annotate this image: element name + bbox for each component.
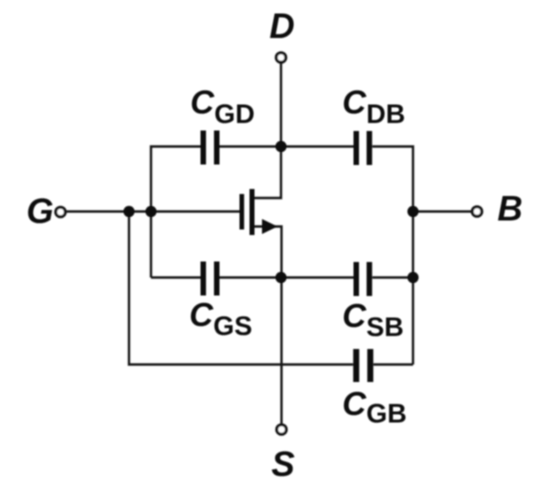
wire bottom row left segment xyxy=(151,276,201,278)
wire bottom row right segment xyxy=(372,276,413,278)
svg-text:DB: DB xyxy=(366,99,405,129)
terminal D circle xyxy=(276,53,286,63)
svg-text:C: C xyxy=(189,296,214,333)
capacitor C_SB xyxy=(354,262,373,296)
wire source terminal vertical xyxy=(280,278,282,425)
node source junction xyxy=(275,272,286,283)
transistor M1 (NMOS) xyxy=(240,189,278,235)
svg-text:C: C xyxy=(190,84,215,121)
node bulk junction xyxy=(407,206,418,217)
svg-text:S: S xyxy=(271,445,294,484)
capacitor C_DB xyxy=(354,131,373,165)
wire bottom row middle segment xyxy=(220,276,354,278)
capacitor C_GS xyxy=(201,262,220,296)
wire top row right segment xyxy=(372,147,413,365)
svg-text:C: C xyxy=(342,385,367,422)
svg-text:G: G xyxy=(26,192,53,231)
node gate junction 1 xyxy=(123,206,134,217)
capacitor C_GD xyxy=(201,131,220,165)
node drain junction xyxy=(275,141,286,152)
wire drain terminal vertical xyxy=(280,64,282,147)
wire gate row xyxy=(66,210,240,212)
node source-bulk junction xyxy=(407,272,418,283)
node gate junction 2 xyxy=(145,206,156,217)
wire left outer vertical xyxy=(129,212,353,365)
svg-text:GB: GB xyxy=(366,399,407,429)
wire bulk terminal xyxy=(413,210,472,212)
wire top row left segment xyxy=(151,147,201,278)
svg-text:C: C xyxy=(342,297,367,334)
wire mosfet source connection xyxy=(255,227,282,278)
wire C_GB right segment xyxy=(373,363,413,365)
svg-text:GS: GS xyxy=(213,311,252,341)
terminal G circle xyxy=(56,207,66,217)
svg-text:B: B xyxy=(497,190,522,229)
svg-text:D: D xyxy=(269,7,294,46)
svg-text:GD: GD xyxy=(214,99,255,129)
svg-text:C: C xyxy=(342,84,367,121)
terminal B circle xyxy=(472,207,482,217)
wire mosfet drain connection xyxy=(255,147,282,199)
svg-text:SB: SB xyxy=(366,312,404,342)
wire top row middle segment xyxy=(220,145,354,147)
capacitor C_GB xyxy=(353,349,373,382)
terminal S circle xyxy=(277,425,287,435)
